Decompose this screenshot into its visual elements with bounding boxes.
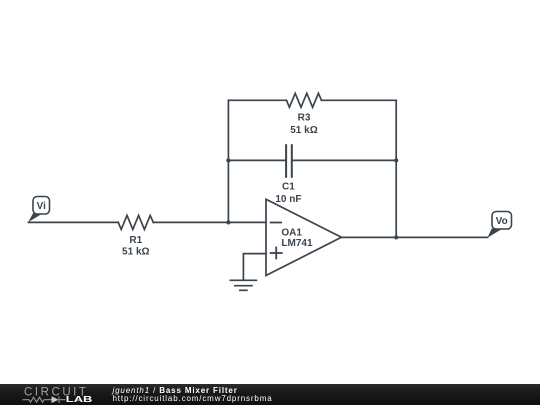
wire left vertical feedback branch <box>227 100 229 222</box>
wire top feedback right segment <box>322 99 397 101</box>
op-amp plus sign <box>271 248 282 259</box>
wire node A to op-amp inverting input <box>228 221 266 223</box>
wire R1 to node A <box>153 221 228 223</box>
footer bar <box>0 384 540 405</box>
logo diode triangle <box>52 396 59 403</box>
logo schematic line <box>23 397 66 403</box>
svg-text:http://circuitlab.com/cmw7dprn: http://circuitlab.com/cmw7dprnsrbma <box>113 394 273 403</box>
node B capacitor junction dot <box>394 158 398 162</box>
wire C1 right plate to node B <box>293 159 397 161</box>
svg-text:LAB: LAB <box>66 396 93 405</box>
svg-text:LM741: LM741 <box>281 238 313 249</box>
wire Vi to R1 <box>28 221 118 223</box>
node A junction dot <box>226 220 230 224</box>
resistor R1 <box>118 215 153 229</box>
op-amp minus sign <box>271 222 281 224</box>
flag Vi <box>28 197 49 223</box>
node B output junction dot <box>394 235 398 239</box>
resistor R3 <box>287 93 322 107</box>
svg-text:R1: R1 <box>129 235 142 246</box>
wire op-amp output to Vo <box>341 236 487 238</box>
node A capacitor junction dot <box>226 158 230 162</box>
svg-text:10 nF: 10 nF <box>275 194 301 205</box>
op-amp OA1 <box>266 199 341 275</box>
capacitor C1 <box>286 145 292 177</box>
svg-text:C1: C1 <box>282 182 295 193</box>
wire right vertical feedback branch <box>395 100 397 237</box>
wire op-amp noninverting input <box>243 254 266 281</box>
svg-text:OA1: OA1 <box>281 228 302 239</box>
wire node A to C1 left plate <box>228 159 285 161</box>
flag Vo <box>487 212 511 238</box>
svg-text:Vi: Vi <box>37 201 46 212</box>
svg-text:51 kΩ: 51 kΩ <box>290 125 317 136</box>
ground <box>230 280 256 290</box>
wire top feedback left segment <box>228 99 286 101</box>
svg-text:R3: R3 <box>298 113 311 124</box>
svg-text:Vo: Vo <box>496 216 508 227</box>
svg-text:51 kΩ: 51 kΩ <box>122 247 149 258</box>
